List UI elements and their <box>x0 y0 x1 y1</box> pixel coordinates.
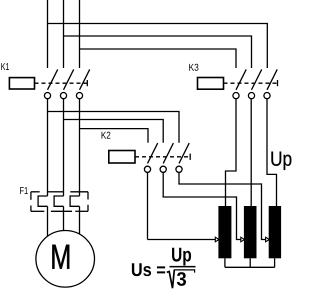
F1 heater element 3 <box>70 196 79 206</box>
resistor R1 body <box>218 206 231 258</box>
wire L3 below K1 to F1 <box>79 99 81 196</box>
F1 heater element 2 <box>54 196 63 206</box>
K2 contact 1 <box>144 143 157 172</box>
label Up-right <box>271 152 291 170</box>
F1 box left edge <box>30 192 32 212</box>
tap arrow into R1 <box>215 237 219 242</box>
K2 linkage dashed line <box>135 156 190 158</box>
K2 linkage end tick <box>189 154 191 160</box>
contactor K3 coil <box>198 78 224 90</box>
K1 contact 3 <box>76 69 89 98</box>
tap arrow into R3 <box>266 237 270 242</box>
formula radical overline <box>174 270 195 273</box>
label Up-num <box>172 248 191 266</box>
K1 linkage dashed line <box>35 82 88 84</box>
contactor K1 coil <box>9 78 34 89</box>
wire tap line to R1 <box>148 239 216 241</box>
label K2 <box>102 132 111 139</box>
K1 contact 1 <box>44 69 57 98</box>
wire B2 branch phase2 to K2 contact 2 <box>64 120 164 143</box>
label F1 <box>20 187 28 194</box>
wire B1 branch phase1 to K2 contact 3 <box>48 112 180 143</box>
wire L1 phase 1 vertical top <box>47 0 49 68</box>
wire B3 branch phase3 to K2 contact 1 <box>80 129 149 143</box>
F1 heater element 1 <box>38 196 47 206</box>
wire T3 phase3 to right drop <box>80 49 237 68</box>
label sqrt3-3 <box>177 272 186 286</box>
motor M circle <box>36 230 95 287</box>
wire motor lead 3 <box>79 206 81 234</box>
F1 box right edge <box>87 192 89 212</box>
resistor bank star bus <box>225 258 275 267</box>
wire K2 c1 down to tap line <box>147 172 149 239</box>
wire T1 phase1 to right drop <box>48 24 268 69</box>
resistor R2 body <box>244 206 257 258</box>
resistor R3 body <box>269 206 281 258</box>
wire K3 c3 to R3 top <box>267 99 277 207</box>
label M <box>52 245 69 269</box>
formula fraction bar <box>170 266 196 268</box>
K3 contact 3 <box>264 69 277 98</box>
wire motor lead 2 <box>63 206 65 230</box>
K3 contact 1 <box>233 69 246 98</box>
K3 linkage dashed line <box>224 82 278 84</box>
K2 contact 3 <box>176 143 189 172</box>
K3 linkage end tick <box>277 80 279 86</box>
K1 linkage end tick <box>86 80 88 86</box>
wire L2 below K1 to F1 <box>63 99 65 196</box>
wire T2 phase2 to right drop <box>64 36 252 68</box>
label Us= <box>132 263 165 276</box>
formula radical sign <box>167 270 175 288</box>
wire L1 below K1 to F1 <box>47 99 49 196</box>
wire K3 c2 to R2 top <box>250 99 252 207</box>
wire L3 phase 3 vertical top <box>79 0 81 68</box>
K3 contact 2 <box>248 69 261 98</box>
label K3 <box>189 64 198 71</box>
contactor K2 coil <box>109 151 135 164</box>
tap arrow into R2 <box>241 237 245 242</box>
wire L2 phase 2 vertical top <box>63 0 65 68</box>
K2 contact 2 <box>160 143 173 172</box>
wire K2 c3 to R3 tap <box>179 172 266 239</box>
wire K2 c2 to R2 tap <box>163 172 241 239</box>
wire motor lead 1 <box>47 206 49 236</box>
thermal overload F1 dashed box top edge <box>31 191 88 193</box>
K1 contact 2 <box>60 69 73 98</box>
wire K3 c1 to R1 top <box>226 99 237 207</box>
label K1 <box>1 63 9 70</box>
F1 box bottom edge <box>31 210 88 212</box>
